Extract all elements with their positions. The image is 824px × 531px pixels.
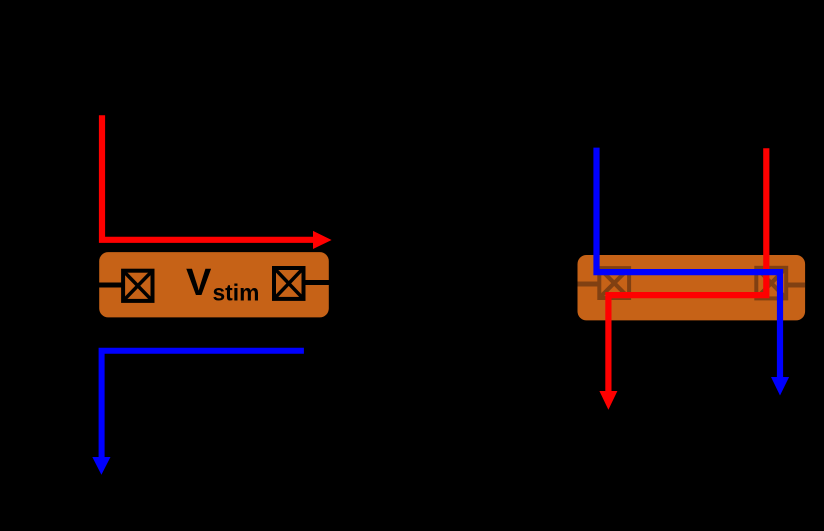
arrowhead blue out of right device	[771, 377, 789, 396]
device body left (stimulation electrode Vstim)	[99, 252, 329, 317]
arrowhead blue out of left device	[92, 457, 110, 475]
lead left contact (right device)	[578, 282, 599, 287]
wire blue current path (right device)	[597, 148, 781, 378]
contact pad symbol left (left device)	[123, 271, 152, 301]
contact pad symbol right (left device)	[274, 268, 304, 299]
svg-text:stim: stim	[213, 280, 260, 306]
svg-text:V: V	[186, 262, 212, 304]
lead left contact (left device)	[98, 283, 124, 288]
wire blue return current out (left device)	[102, 351, 304, 458]
lead right contact (right device)	[786, 283, 805, 288]
contact pad symbol right (right device)	[756, 268, 786, 299]
arrowhead red into left device	[313, 231, 332, 249]
wire red stimulation current in (left device)	[102, 115, 314, 240]
wire red current path (right device)	[608, 148, 766, 391]
contact pad symbol left (right device)	[599, 268, 629, 298]
arrowhead red out of right device	[599, 391, 617, 410]
lead right contact (left device)	[303, 280, 330, 285]
device body right (recording electrode)	[578, 255, 806, 320]
